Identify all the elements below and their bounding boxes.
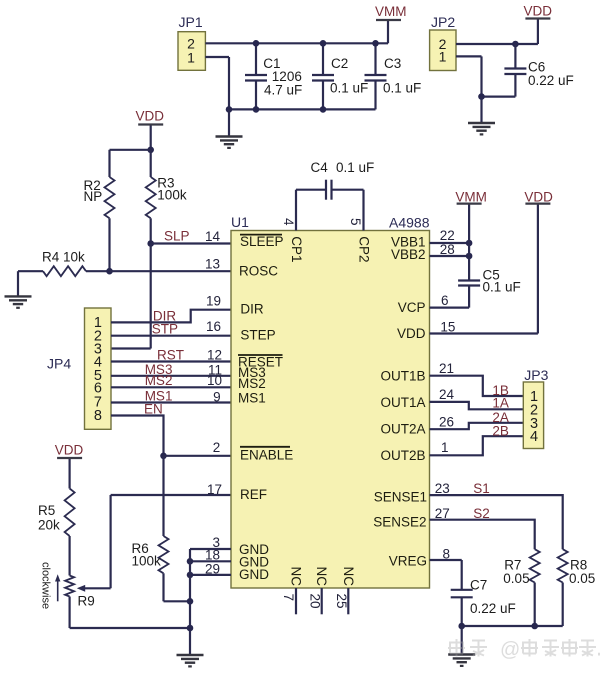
svg-text:VMM: VMM (455, 190, 487, 205)
svg-text:U1: U1 (231, 214, 249, 230)
svg-text:6: 6 (441, 293, 449, 308)
svg-text:REF: REF (240, 487, 267, 502)
svg-text:OUT1B: OUT1B (380, 368, 425, 383)
svg-text:STEP: STEP (240, 328, 275, 343)
svg-text:VMM: VMM (375, 4, 407, 19)
svg-text:VBB2: VBB2 (391, 247, 426, 262)
svg-text:EN: EN (144, 402, 163, 417)
svg-text:C3: C3 (384, 56, 401, 71)
svg-text:0.1 uF: 0.1 uF (336, 160, 374, 175)
svg-text:18: 18 (205, 548, 220, 563)
svg-text:C4: C4 (311, 160, 329, 175)
svg-text:20: 20 (308, 594, 323, 609)
svg-text:JP2: JP2 (431, 14, 455, 30)
svg-text:2: 2 (213, 440, 221, 455)
svg-text:C7: C7 (470, 578, 487, 593)
svg-text:VDD: VDD (55, 443, 84, 458)
svg-text:OUT2B: OUT2B (380, 448, 425, 463)
svg-text:28: 28 (440, 242, 455, 257)
svg-text:7: 7 (281, 594, 296, 602)
svg-text:26: 26 (439, 415, 454, 430)
svg-text:23: 23 (435, 481, 450, 496)
svg-text:13: 13 (205, 257, 220, 272)
svg-text:27: 27 (435, 506, 450, 521)
svg-text:DIR: DIR (240, 302, 264, 317)
svg-text:JP4: JP4 (47, 356, 71, 372)
svg-text:OUT1A: OUT1A (380, 395, 425, 410)
svg-text:A4988: A4988 (389, 215, 430, 231)
svg-text:4.7 uF: 4.7 uF (264, 83, 302, 98)
svg-text:R4 10k: R4 10k (42, 250, 85, 265)
svg-text:0.05: 0.05 (503, 571, 529, 586)
svg-text:0.05: 0.05 (569, 571, 595, 586)
svg-text:SLP: SLP (164, 229, 190, 244)
svg-text:NC: NC (289, 567, 304, 587)
svg-text:9: 9 (213, 390, 221, 405)
svg-text:JP1: JP1 (179, 14, 203, 30)
svg-text:SLEEP: SLEEP (240, 234, 284, 249)
svg-text:MS1: MS1 (238, 390, 266, 405)
svg-text:1: 1 (187, 49, 195, 65)
svg-text:VDD: VDD (397, 326, 426, 341)
svg-text:0.22 uF: 0.22 uF (528, 73, 574, 88)
svg-text:8: 8 (443, 547, 451, 562)
svg-text:0.1 uF: 0.1 uF (483, 280, 521, 295)
svg-text:SENSE2: SENSE2 (373, 515, 426, 530)
svg-text:@: @ (500, 639, 520, 661)
svg-text:24: 24 (439, 387, 455, 402)
svg-text:R9: R9 (78, 594, 95, 609)
svg-text:OUT2A: OUT2A (380, 422, 425, 437)
svg-text:ENABLE: ENABLE (240, 447, 293, 462)
svg-text:CP1: CP1 (289, 236, 304, 262)
svg-text:1A: 1A (492, 396, 509, 411)
svg-text:VDD: VDD (524, 4, 553, 19)
svg-text:R5: R5 (38, 503, 55, 518)
svg-text:19: 19 (206, 294, 221, 309)
svg-text:25: 25 (334, 594, 349, 609)
svg-text:VREG: VREG (389, 554, 427, 569)
svg-text:15: 15 (440, 320, 455, 335)
svg-text:NC: NC (314, 567, 329, 587)
svg-text:S2: S2 (473, 506, 490, 521)
svg-text:VDD: VDD (136, 109, 165, 124)
svg-text:MS2: MS2 (145, 373, 173, 388)
svg-text:1: 1 (439, 49, 447, 65)
svg-text:100k: 100k (132, 554, 162, 569)
svg-text:RST: RST (157, 347, 184, 362)
svg-text:ROSC: ROSC (239, 264, 278, 279)
svg-text:22: 22 (440, 228, 455, 243)
svg-text:C2: C2 (331, 56, 348, 71)
svg-text:0.1 uF: 0.1 uF (383, 80, 421, 95)
svg-text:100k: 100k (157, 188, 187, 203)
svg-text:NC: NC (341, 567, 356, 587)
svg-text:8: 8 (94, 408, 102, 424)
svg-text:STP: STP (152, 322, 178, 337)
svg-text:10: 10 (207, 373, 222, 388)
svg-text:12: 12 (207, 348, 222, 363)
svg-text:CP2: CP2 (357, 236, 372, 262)
svg-text:1: 1 (441, 440, 449, 455)
svg-text:clockwise: clockwise (39, 562, 51, 609)
svg-text:0.1 uF: 0.1 uF (330, 80, 368, 95)
svg-text:VCP: VCP (398, 300, 426, 315)
svg-text:S1: S1 (473, 481, 490, 496)
svg-text:NP: NP (84, 189, 103, 204)
svg-text:SENSE1: SENSE1 (374, 490, 427, 505)
svg-text:4: 4 (530, 429, 538, 445)
svg-text:GND: GND (239, 567, 269, 582)
svg-text:2B: 2B (492, 423, 509, 438)
svg-text:JP3: JP3 (524, 367, 548, 383)
svg-text:0.22 uF: 0.22 uF (470, 601, 516, 616)
svg-text:16: 16 (206, 319, 221, 334)
svg-text:29: 29 (205, 562, 220, 577)
svg-text:14: 14 (205, 229, 221, 244)
svg-text:MS2: MS2 (238, 376, 266, 391)
svg-text:VDD: VDD (524, 190, 553, 205)
svg-text:21: 21 (439, 361, 454, 376)
svg-text:5: 5 (348, 218, 363, 226)
svg-text:20k: 20k (38, 518, 60, 533)
svg-text:4: 4 (281, 218, 296, 226)
svg-text:17: 17 (207, 482, 222, 497)
